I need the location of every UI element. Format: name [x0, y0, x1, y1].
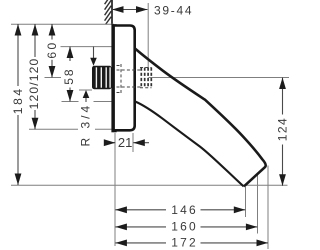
svg-text:39-44: 39-44	[154, 4, 193, 18]
svg-text:21: 21	[118, 135, 132, 150]
svg-text:120/120: 120/120	[27, 58, 41, 110]
svg-text:146: 146	[171, 203, 198, 217]
svg-text:184: 184	[11, 86, 25, 114]
svg-text:58: 58	[62, 67, 76, 84]
svg-text:172: 172	[171, 236, 198, 250]
svg-text:124: 124	[275, 117, 289, 142]
svg-text:160: 160	[171, 219, 198, 233]
svg-text:60: 60	[45, 40, 59, 58]
svg-text:R 3/4: R 3/4	[78, 103, 92, 147]
